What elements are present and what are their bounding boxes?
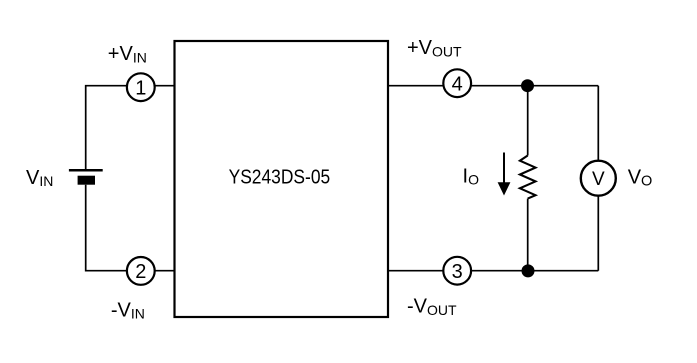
wire resistor branch top [527,86,529,156]
svg-text:2: 2 [135,261,146,283]
wire right bottom rail [388,270,598,272]
resistor load [520,156,536,199]
svg-text:V: V [592,169,605,190]
junction bottom [522,264,535,277]
svg-text:3: 3 [452,261,463,283]
label -VIN [111,300,145,322]
arrow IO [498,153,511,196]
module YS243DS-05 [175,41,389,317]
pin 3 [443,257,471,285]
wire left top rail [86,86,175,170]
pin 1 [127,73,155,101]
pin 4 [443,69,471,97]
voltmeter V [581,161,616,196]
label +VIN [108,43,147,65]
label IO [463,165,480,187]
wire resistor branch bottom [527,199,529,271]
label +VOUT [407,37,462,59]
wire left bottom rail [86,185,175,271]
label VO [628,167,653,190]
wire right top rail [388,85,598,87]
wire right rail vertical [597,86,599,271]
junction top [521,79,534,92]
pin 2 [127,257,155,285]
label -VOUT [407,296,457,318]
svg-text:1: 1 [135,77,146,99]
svg-text:YS243DS-05: YS243DS-05 [229,166,331,188]
svg-text:4: 4 [452,73,463,95]
battery VIN [69,170,103,185]
label VIN [26,167,53,189]
